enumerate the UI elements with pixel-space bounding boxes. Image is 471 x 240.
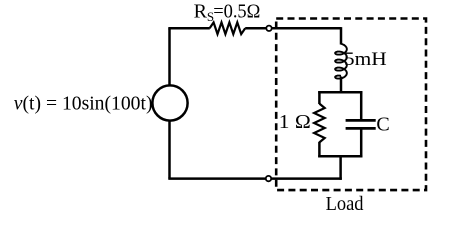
node: bottom load terminal — [266, 176, 271, 181]
svg-text:C: C — [376, 114, 389, 136]
wire: stub from bottom bar down to bottom wire — [339, 156, 342, 180]
svg-text:5mH: 5mH — [344, 50, 387, 70]
wire: parallel block top bar — [318, 91, 362, 94]
capacitor C bottom plate — [346, 127, 376, 130]
wire: left branch lower stub — [318, 142, 321, 158]
wire: inductor to parallel block top bar — [340, 77, 343, 94]
svg-text:=0.5Ω: =0.5Ω — [213, 1, 260, 23]
wire: left branch upper stub — [318, 91, 321, 104]
resistor R1 1-ohm zigzag — [314, 104, 325, 143]
capacitor C top plate — [346, 119, 376, 122]
svg-text:R: R — [194, 1, 208, 23]
wire: right vertical into load down to inductor — [340, 27, 343, 44]
wire: top segment resistor to corner — [245, 27, 341, 30]
load box dashed outline — [276, 19, 426, 191]
node: top load terminal — [266, 26, 271, 31]
wire: bottom horizontal from source to load — [168, 177, 341, 180]
wire: right branch upper stub — [360, 91, 363, 120]
wire: parallel block bottom bar — [318, 155, 362, 158]
resistor RS zigzag — [210, 22, 246, 34]
wire: left vertical (source branch) — [168, 28, 171, 178]
svg-text:1 Ω: 1 Ω — [279, 111, 311, 133]
svg-text:Load: Load — [326, 193, 364, 215]
voltage source VS circle — [152, 85, 187, 120]
wire: top horizontal from source to load terminal — [168, 27, 210, 30]
inductor L 5mH coil — [335, 44, 347, 79]
svg-text:v(t) = 10sin(100t): v(t) = 10sin(100t) — [14, 92, 153, 114]
wire: right branch lower stub — [360, 128, 363, 157]
